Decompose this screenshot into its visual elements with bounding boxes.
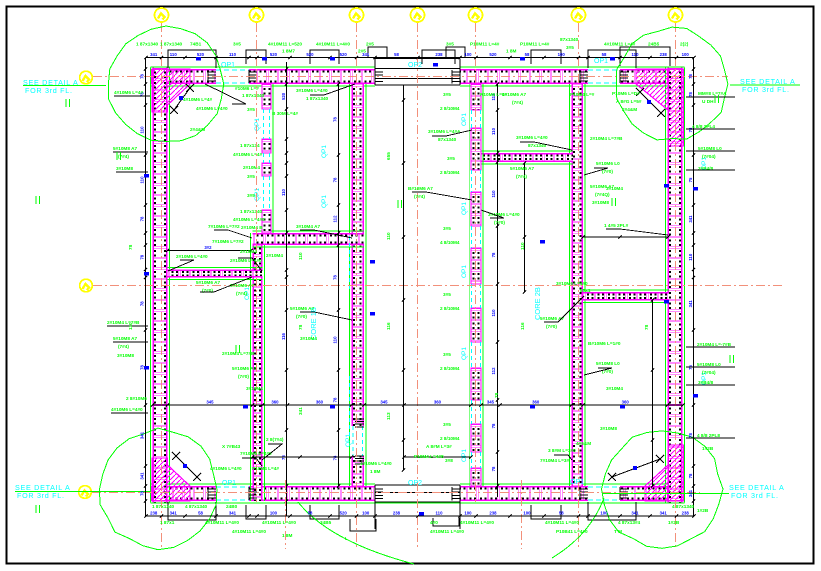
svg-text:100: 100 [558, 52, 566, 57]
svg-text:FOR 3rd FL.: FOR 3rd FL. [17, 491, 65, 500]
label QP1 rotated at 466,360 [461, 347, 468, 360]
svg-text:(7#4): (7#4) [236, 291, 247, 296]
svg-text:7#10M6 L=7#2: 7#10M6 L=7#2 [212, 239, 244, 244]
svg-text:3#10M6 L=4#0: 3#10M6 L=4#0 [296, 88, 328, 93]
svg-text:(7#4): (7#4) [512, 100, 523, 105]
svg-text:3#10M4: 3#10M4 [300, 336, 317, 341]
svg-text:(7#4): (7#4) [118, 344, 129, 349]
wall V3 interior piers [469, 84, 483, 486]
svg-text:116: 116 [520, 322, 525, 330]
svg-text:78: 78 [140, 74, 145, 79]
svg-text:2 8(7#4): 2 8(7#4) [266, 437, 284, 442]
svg-text:2(2): 2(2) [680, 42, 689, 47]
note SEE DETAIL A top-left [23, 78, 106, 95]
svg-text:341: 341 [688, 489, 693, 497]
svg-text:3#10M4: 3#10M4 [606, 386, 623, 391]
svg-text:110: 110 [491, 127, 496, 135]
svg-text:OP2: OP2 [408, 62, 422, 69]
green callout cluster 18 [196, 280, 220, 293]
svg-text:2#10M4 L=-7#B: 2#10M4 L=-7#B [697, 342, 732, 347]
svg-text:360: 360 [271, 400, 279, 405]
label OP2 top-center [408, 62, 422, 69]
svg-text:345: 345 [380, 400, 388, 405]
opening QP1 in V2 lower [345, 419, 365, 464]
wall A interior horizontal [253, 231, 365, 247]
svg-text:(7#0): (7#0) [602, 169, 613, 174]
label OP1 top-right [594, 58, 608, 65]
svg-text:3#5: 3#5 [443, 352, 451, 357]
svg-text:110: 110 [436, 511, 444, 516]
svg-text:110: 110 [632, 52, 640, 57]
green callout cluster 4 [290, 306, 317, 341]
svg-text:24B0: 24B0 [226, 504, 238, 509]
label CORE 2B [533, 287, 542, 320]
svg-text:OP1: OP1 [461, 265, 468, 278]
svg-text:QP1: QP1 [321, 195, 328, 208]
label OP1 rotated at 466,462 [461, 449, 468, 462]
green callout cluster 10 [540, 281, 591, 329]
svg-text:238: 238 [489, 511, 497, 516]
svg-text:4#0: 4#0 [430, 520, 438, 525]
svg-text:78: 78 [333, 397, 338, 402]
svg-text:4#10M6 L=4#: 4#10M6 L=4# [183, 97, 212, 102]
step bracket bottom OP1 right [588, 502, 636, 520]
svg-text:2#10M6 L=4#0: 2#10M6 L=4#0 [230, 258, 262, 263]
svg-text:341: 341 [170, 511, 178, 516]
svg-text:78: 78 [298, 324, 303, 330]
dimension segment y237 right [581, 235, 669, 238]
svg-text:110: 110 [491, 309, 496, 317]
svg-text:3#5: 3#5 [247, 107, 255, 112]
svg-text:58: 58 [198, 511, 203, 516]
svg-text:520: 520 [340, 52, 348, 57]
svg-text:3#B4/8: 3#B4/8 [698, 380, 714, 385]
svg-text:1#2B: 1#2B [697, 508, 709, 513]
svg-text:4#10M11 L=4#0: 4#10M11 L=4#0 [262, 520, 296, 525]
svg-text:4#10M11 L=4#0: 4#10M11 L=4#0 [232, 529, 266, 534]
svg-text:78: 78 [494, 392, 499, 398]
note SEE DETAIL A top-right [730, 77, 800, 94]
svg-text:78: 78 [140, 254, 145, 259]
svg-text:2 8/10M4: 2 8/10M4 [440, 170, 460, 175]
svg-text:5#10M6 A7: 5#10M6 A7 [196, 280, 220, 285]
svg-text:5#10M6 A7: 5#10M6 A7 [540, 316, 564, 321]
label OP1 rotated at 249,300 [244, 287, 251, 300]
svg-text:5#10M6 A7: 5#10M6 A7 [230, 283, 254, 288]
green callout cluster 15 [360, 461, 392, 474]
svg-text:110: 110 [298, 252, 303, 260]
grid bubble left C [79, 486, 92, 499]
svg-text:3#5: 3#5 [447, 156, 455, 161]
step bracket top OP1 left [168, 50, 216, 68]
detail circle top-right [616, 27, 728, 140]
svg-text:78: 78 [491, 466, 496, 471]
svg-text:P10M11 L=4#: P10M11 L=4# [470, 42, 500, 47]
svg-text:OP1: OP1 [461, 113, 468, 126]
svg-text:3#5: 3#5 [443, 226, 451, 231]
svg-text:2#10M4: 2#10M4 [243, 165, 260, 170]
svg-text:(7#04): (7#04) [702, 370, 716, 375]
grid bubble left B [80, 279, 93, 292]
corner hatch top-left [152, 69, 190, 112]
svg-text:QP1: QP1 [461, 202, 468, 215]
svg-text:1 87x1340: 1 87x1340 [160, 42, 183, 47]
svg-text:A 8#M L=3#: A 8#M L=3# [426, 444, 452, 449]
svg-text:5#10M6 A7: 5#10M6 A7 [290, 306, 314, 311]
svg-text:P10B41 L=4#0: P10B41 L=4#0 [556, 529, 588, 534]
dimension chain interior vertical x338 [333, 82, 341, 487]
svg-text:110: 110 [688, 253, 693, 261]
dimension chain interior vertical x404 [402, 85, 405, 472]
svg-text:113: 113 [386, 412, 391, 420]
svg-text:OP2: OP2 [408, 480, 422, 487]
svg-text:3#10M8: 3#10M8 [600, 426, 617, 431]
svg-text:655: 655 [386, 152, 391, 160]
dimension chain interior horizontal y405 [151, 400, 685, 407]
svg-text:520: 520 [340, 511, 348, 516]
svg-text:2#10M4 L=7#B: 2#10M4 L=7#B [590, 136, 623, 141]
svg-text:P10M4 L=#: P10M4 L=# [570, 92, 595, 97]
svg-text:4#10M6 L=4#0: 4#10M6 L=4#0 [196, 106, 228, 111]
note SEE DETAIL A bottom-left [15, 483, 150, 500]
dimension chain interior vertical x653 [651, 298, 654, 487]
svg-text:4#10M6 L=4#: 4#10M6 L=4# [114, 90, 143, 95]
svg-text:3#5: 3#5 [247, 193, 255, 198]
dimension chain interior vertical x524 [523, 161, 526, 293]
green callout cluster 1 [183, 97, 228, 132]
svg-text:78: 78 [688, 74, 693, 79]
wall top exterior [151, 67, 685, 86]
svg-text:5#10M6 L0: 5#10M6 L0 [596, 161, 620, 166]
green freehand curve bottom-left [298, 502, 414, 564]
svg-text:1 87x1340: 1 87x1340 [306, 96, 329, 101]
svg-text:B 30M L=4#: B 30M L=4# [272, 111, 298, 116]
green callouts V1b [233, 86, 265, 230]
svg-text:78: 78 [333, 275, 338, 280]
svg-text:5#10M8 A7: 5#10M8 A7 [113, 146, 137, 151]
green dimension texts top row [136, 37, 689, 54]
svg-text:78: 78 [140, 301, 145, 306]
svg-text:1 8M: 1 8M [370, 469, 381, 474]
svg-text:360: 360 [434, 400, 442, 405]
svg-text:#10M6 L=#: #10M6 L=# [235, 86, 259, 91]
green callout cluster 6 [408, 129, 461, 199]
svg-text:116: 116 [386, 322, 391, 330]
svg-text:(7#4): (7#4) [414, 194, 425, 199]
svg-text:110: 110 [140, 176, 145, 184]
svg-text:OP1: OP1 [221, 62, 235, 69]
green callout cluster 17 [176, 249, 257, 259]
svg-text:100: 100 [682, 52, 690, 57]
svg-text:OP1: OP1 [570, 479, 584, 486]
svg-text:78: 78 [140, 216, 145, 221]
grid bubble top 7 [669, 8, 683, 22]
grid bubble top 5 [469, 8, 483, 22]
svg-text:3#10M4 A7: 3#10M4 A7 [296, 224, 320, 229]
step bracket bottom OP1 left [168, 502, 216, 520]
svg-text:U DH: U DH [702, 99, 714, 104]
horizontal gridlines (salmon dash-dot) [92, 77, 782, 493]
section marker bottom-right [608, 455, 664, 481]
svg-text:QP1: QP1 [345, 434, 352, 447]
svg-text:1 87x1340: 1 87x1340 [152, 504, 175, 509]
svg-text:360: 360 [622, 400, 630, 405]
svg-text:341: 341 [229, 511, 237, 516]
wall V1 interior [251, 233, 265, 501]
svg-text:1 87x1340: 1 87x1340 [242, 93, 265, 98]
section marker top-right [636, 88, 665, 117]
svg-text:520: 520 [306, 52, 314, 57]
svg-text:2#10M4 L=7#B: 2#10M4 L=7#B [222, 351, 255, 356]
detail circle bottom-right [602, 431, 724, 548]
green callouts left margin [107, 90, 150, 413]
svg-text:110: 110 [491, 190, 496, 198]
svg-text:110: 110 [281, 188, 286, 196]
svg-text:78: 78 [688, 92, 693, 97]
svg-text:1 87x1340: 1 87x1340 [240, 209, 263, 214]
label OP1 rotated at 706,170 [701, 157, 708, 170]
wall bottom exterior [151, 484, 685, 503]
svg-text:OP1: OP1 [222, 480, 236, 487]
svg-text:3#10M6 L=4#0: 3#10M6 L=4#0 [516, 135, 548, 140]
svg-text:360: 360 [532, 400, 540, 405]
svg-text:3#5: 3#5 [443, 422, 451, 427]
svg-text:3#10M8: 3#10M8 [117, 353, 134, 358]
label QP1 rotated at 466,215 [461, 202, 468, 215]
green callout cluster 12 [588, 341, 623, 431]
black leader lines for callouts [168, 84, 668, 466]
step bracket bottom OP2 [350, 518, 459, 531]
svg-text:(7#4): (7#4) [516, 174, 527, 179]
svg-text:X 7#B43: X 7#B43 [222, 444, 241, 449]
svg-text:1 8M7: 1 8M7 [282, 49, 295, 54]
corner hatch top-right [636, 69, 684, 146]
svg-text:87x1340: 87x1340 [438, 137, 457, 142]
label OP1 top-left [221, 62, 235, 69]
svg-text:58: 58 [308, 511, 313, 516]
svg-text:3#5: 3#5 [446, 42, 454, 47]
svg-text:100: 100 [464, 511, 472, 516]
svg-text:110: 110 [128, 322, 133, 330]
step bracket top OP2 [368, 47, 465, 58]
green callout cluster 19 [480, 92, 595, 105]
svg-text:78: 78 [333, 455, 338, 460]
svg-text:(7#4Q): (7#4Q) [595, 192, 610, 197]
svg-text:5#10M6 A7: 5#10M6 A7 [510, 166, 534, 171]
dimension segment y457 mid [402, 455, 472, 458]
svg-text:520: 520 [270, 52, 278, 57]
green callout cluster 16 [414, 441, 591, 463]
svg-text:4 8/10M4: 4 8/10M4 [440, 240, 460, 245]
svg-text:3#2: 3#2 [204, 245, 212, 250]
grid bubble top 4 [411, 8, 425, 22]
label OP1 bottom-left [222, 480, 236, 487]
wall B interior horizontal [168, 268, 263, 280]
dimension chain interior vertical x497 [491, 82, 499, 497]
svg-text:78: 78 [491, 423, 496, 428]
section marker top-left [170, 84, 194, 114]
grid bubble top 6 [572, 8, 586, 22]
green callout cluster 21 [488, 212, 520, 225]
detail circle bottom-left [100, 428, 217, 550]
svg-text:3#8: 3#8 [445, 458, 453, 463]
svg-text:341: 341 [688, 300, 693, 308]
svg-text:78: 78 [688, 433, 693, 438]
svg-text:4#10M11 L=4#0: 4#10M11 L=4#0 [430, 529, 464, 534]
corner hatch bottom-left [152, 458, 190, 501]
label QP1 rotated at 326,208 [321, 195, 328, 208]
label QP1 on V1b upper [254, 118, 261, 131]
svg-text:5#10M6 A7: 5#10M6 A7 [502, 92, 526, 97]
label OP1 rotated at 466,278 [461, 265, 468, 278]
svg-text:QP1: QP1 [321, 145, 328, 158]
svg-text:341: 341 [298, 407, 303, 415]
svg-text:87x1: 87x1 [580, 288, 591, 293]
svg-text:238: 238 [682, 511, 690, 516]
green callout cluster 20 [208, 224, 320, 229]
svg-text:2 8/10M4: 2 8/10M4 [440, 106, 460, 111]
svg-text:4#10M6 L=4#0: 4#10M6 L=4#0 [233, 217, 265, 222]
svg-text:(7#0): (7#0) [238, 374, 249, 379]
svg-text:78: 78 [140, 365, 145, 370]
svg-text:QP1: QP1 [254, 188, 261, 201]
svg-text:L: L [345, 536, 348, 541]
svg-text:110: 110 [229, 52, 237, 57]
green dimension texts bottom rows [152, 504, 709, 541]
opening OP2 bottom-center [375, 483, 460, 529]
svg-text:78: 78 [688, 473, 693, 478]
svg-text:238: 238 [435, 52, 443, 57]
svg-text:2#10M4 B: 2#10M4 B [241, 225, 263, 230]
svg-text:58: 58 [394, 52, 399, 57]
svg-text:520: 520 [281, 92, 286, 100]
corner hatch bottom-right [645, 445, 684, 501]
svg-text:4#10M6 L=4#0: 4#10M6 L=4#0 [210, 466, 242, 471]
svg-text:4 87x1340: 4 87x1340 [185, 504, 208, 509]
svg-text:100: 100 [600, 511, 608, 516]
svg-text:34B5: 34B5 [320, 520, 332, 525]
svg-text:58: 58 [602, 52, 607, 57]
svg-text:1 87x1340: 1 87x1340 [136, 42, 159, 47]
svg-text:5#10M6 A7: 5#10M6 A7 [590, 184, 614, 189]
opening jamb brackets [208, 70, 628, 500]
svg-text:74B1: 74B1 [190, 42, 202, 47]
svg-text:110: 110 [140, 126, 145, 134]
green freehand curve bottom-right [552, 498, 604, 558]
mid bracket boxes bottom [246, 505, 561, 519]
svg-text:238: 238 [660, 52, 668, 57]
dimension segment y457 left [251, 455, 353, 458]
svg-text:58: 58 [559, 511, 564, 516]
detail circle top-left [108, 26, 223, 141]
label OP1 bottom-right [570, 479, 584, 486]
dimension chain right margin [688, 58, 695, 517]
svg-text:100: 100 [523, 511, 531, 516]
svg-text:3#5: 3#5 [247, 174, 255, 179]
svg-text:4#10M11 L=4#0: 4#10M11 L=4#0 [205, 520, 239, 525]
svg-text:1 8M: 1 8M [506, 49, 517, 54]
green callout cluster 5 [222, 351, 263, 391]
svg-text:341: 341 [140, 472, 145, 480]
svg-text:345: 345 [487, 400, 495, 405]
wall V1b pier wall [262, 84, 273, 233]
svg-text:FOR 3rd FL.: FOR 3rd FL. [742, 85, 790, 94]
wall V4 interior [570, 84, 585, 486]
svg-text:4 8/8 2PL4: 4 8/8 2PL4 [692, 124, 715, 129]
svg-text:B#10M6 A7: B#10M6 A7 [408, 186, 433, 191]
svg-text:345: 345 [206, 400, 214, 405]
svg-text:3#10M8: 3#10M8 [592, 200, 609, 205]
svg-text:B#10M6 L=1#0: B#10M6 L=1#0 [588, 341, 621, 346]
green callout cluster 3 [212, 239, 283, 296]
svg-text:P10M6 L=D#: P10M6 L=D# [612, 91, 640, 96]
green callout cluster 13 [590, 91, 642, 228]
svg-text:4 8/8 2PL8: 4 8/8 2PL8 [697, 433, 720, 438]
cyan dash opening marks along V2 [348, 236, 350, 436]
vertical gridlines (salmon dash-dot) [162, 23, 676, 549]
svg-text:5#10M8 L0: 5#10M8 L0 [698, 146, 722, 151]
svg-text:(7#0): (7#0) [494, 220, 505, 225]
svg-text:100: 100 [270, 511, 278, 516]
grid bubble top 3 [350, 8, 364, 22]
section marker bottom-left [172, 452, 201, 481]
svg-text:4#10M11 L=4#0: 4#10M11 L=4#0 [460, 520, 494, 525]
label CORE 1B [309, 307, 318, 340]
svg-text:4 87x13#4: 4 87x13#4 [618, 520, 641, 525]
dimension chain top [144, 52, 695, 59]
svg-text:3 8#M L=3#0: 3 8#M L=3#0 [548, 448, 576, 453]
svg-text:341: 341 [150, 52, 158, 57]
svg-text:3#5: 3#5 [443, 292, 451, 297]
svg-text:2 8/10M4: 2 8/10M4 [440, 366, 460, 371]
svg-text:112: 112 [491, 367, 496, 375]
label OP1 rotated at 706,385 [701, 372, 708, 385]
opening OP1 bottom-left [216, 486, 249, 502]
svg-text:FOR 3rd FL.: FOR 3rd FL. [25, 86, 73, 95]
svg-text:238: 238 [150, 511, 158, 516]
svg-text:7#10M6 L=7#2: 7#10M6 L=7#2 [208, 224, 240, 229]
svg-text:110: 110 [386, 232, 391, 240]
svg-text:520: 520 [489, 52, 497, 57]
svg-text:4#10M6 L=4#0: 4#10M6 L=4#0 [360, 461, 392, 466]
svg-text:2#10M4 L=7#B: 2#10M4 L=7#B [107, 320, 140, 325]
svg-text:24B5: 24B5 [648, 42, 660, 47]
svg-text:QP1: QP1 [254, 118, 261, 131]
svg-text:360: 360 [316, 400, 324, 405]
leader lines right margin [686, 97, 735, 438]
svg-text:2#10M4: 2#10M4 [266, 253, 283, 258]
svg-text:T M: T M [614, 529, 622, 534]
label QP1 rotated at 326,158 [321, 145, 328, 158]
svg-text:2 8#10M6: 2 8#10M6 [126, 396, 147, 401]
svg-text:2 8/10M4: 2 8/10M4 [440, 306, 460, 311]
svg-text:2#10M4: 2#10M4 [240, 249, 257, 254]
svg-text:5#10M8 L0: 5#10M8 L0 [697, 362, 721, 367]
svg-text:58: 58 [525, 52, 530, 57]
svg-text:3#5: 3#5 [443, 92, 451, 97]
svg-text:MM#8 L=7#A: MM#8 L=7#A [698, 91, 727, 96]
svg-text:341: 341 [688, 215, 693, 223]
label OP2 bottom-center [408, 480, 422, 487]
svg-text:2 8/10M4: 2 8/10M4 [440, 436, 460, 441]
svg-text:520: 520 [197, 52, 205, 57]
svg-text:2#5: 2#5 [358, 49, 366, 54]
green callout cluster 9 [510, 135, 548, 179]
mid bracket boxes top [246, 50, 561, 64]
svg-text:87x1340: 87x1340 [560, 37, 579, 42]
wall left exterior [151, 68, 170, 503]
wall V3 openings (cyan dashed) [472, 110, 481, 468]
